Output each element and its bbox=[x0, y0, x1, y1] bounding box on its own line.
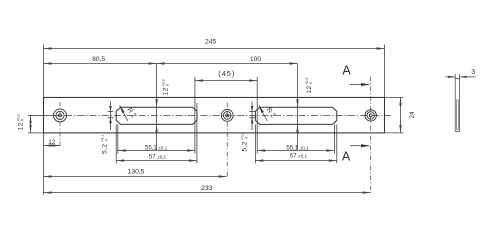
section arrow A top bbox=[350, 83, 371, 86]
side view inner lip bbox=[456, 100, 458, 130]
section arrow A bottom bbox=[350, 144, 371, 147]
svg-text:A: A bbox=[342, 150, 351, 164]
text 12 tol left bbox=[17, 114, 25, 130]
text 5,2 slot S1 bbox=[100, 135, 108, 154]
text 12 tol slot S1 bbox=[162, 79, 170, 95]
svg-text:12: 12 bbox=[163, 87, 170, 95]
section line A-A through hole H3 bbox=[370, 77, 372, 193]
svg-text:80,5: 80,5 bbox=[92, 56, 105, 63]
dimension 12 slot S1 height bbox=[155, 64, 157, 151]
svg-text:3: 3 bbox=[471, 69, 475, 76]
dimension 130,5 bbox=[44, 175, 227, 177]
text 24 bbox=[409, 111, 416, 119]
horizontal centerline bbox=[28, 114, 391, 116]
svg-text:12: 12 bbox=[48, 139, 56, 146]
dimension 12 left (hole height) bbox=[28, 115, 54, 132]
hole H2 center bbox=[226, 114, 229, 117]
hole H2 outer bbox=[221, 110, 233, 122]
dimension 5,2 slot S2 bbox=[249, 102, 255, 131]
svg-text:R 2: R 2 bbox=[265, 107, 277, 120]
dimension 3 side view bbox=[446, 76, 476, 78]
text R2 slot S1 bbox=[126, 107, 138, 120]
dimension 5,2 slot S1 bbox=[108, 102, 114, 131]
text 5,2 slot S2 bbox=[240, 132, 248, 151]
text R2 slot S2 bbox=[265, 107, 277, 120]
svg-text:245: 245 bbox=[205, 38, 216, 45]
svg-text:130,5: 130,5 bbox=[128, 168, 145, 175]
dimension 57 slot S2 bbox=[255, 159, 336, 161]
svg-text:5,2: 5,2 bbox=[241, 141, 248, 151]
slot S2 outline bbox=[255, 107, 336, 124]
hole H1 center bbox=[59, 114, 62, 117]
svg-text:0: 0 bbox=[309, 82, 313, 84]
hole H3 outer bbox=[365, 110, 376, 121]
dimension 80,5 bbox=[44, 62, 157, 64]
hole H3 middle bbox=[367, 112, 374, 119]
side view outline bbox=[455, 74, 459, 132]
dimension 245 bbox=[44, 45, 385, 98]
dimension 12 bottom left (hole x) bbox=[44, 133, 61, 195]
svg-text:12: 12 bbox=[17, 122, 24, 130]
svg-text:5,2: 5,2 bbox=[101, 144, 108, 154]
svg-text:24: 24 bbox=[409, 111, 416, 119]
hole H2 vertical centerline bbox=[226, 103, 228, 177]
dimension 57 slot S1 bbox=[116, 159, 197, 161]
dimension 24 right bbox=[385, 98, 404, 134]
plate outline bbox=[44, 97, 385, 132]
leader R2 slot S1 bbox=[120, 105, 128, 120]
dimension (45) bbox=[195, 77, 257, 154]
svg-text:R 2: R 2 bbox=[126, 107, 138, 120]
svg-text:100: 100 bbox=[250, 56, 261, 63]
slot S1 outline bbox=[116, 107, 197, 124]
svg-text:0: 0 bbox=[104, 139, 108, 141]
leader R2 slot S2 bbox=[259, 105, 267, 120]
hole H2 middle bbox=[223, 112, 231, 120]
svg-text:A: A bbox=[342, 64, 351, 78]
svg-text:0: 0 bbox=[244, 137, 248, 139]
svg-text:12: 12 bbox=[306, 85, 313, 93]
dimension 12 slot S2 height bbox=[296, 64, 298, 151]
hole H1 vertical centerline bbox=[59, 102, 61, 149]
dimension 233 bbox=[44, 191, 371, 193]
dimension 55,1 slot S1 bbox=[116, 103, 197, 163]
svg-text:57 ±0,1: 57 ±0,1 bbox=[290, 153, 308, 159]
svg-text:0: 0 bbox=[20, 119, 24, 121]
hole H1 middle bbox=[56, 111, 64, 119]
svg-text:0: 0 bbox=[166, 84, 170, 86]
hole H3 center bbox=[369, 114, 372, 117]
dimension 100 bbox=[157, 62, 298, 64]
svg-text:233: 233 bbox=[201, 185, 212, 192]
svg-text:(45): (45) bbox=[218, 69, 235, 78]
text 12 tol slot S2 bbox=[305, 78, 313, 94]
dimension 55,1 slot S2 bbox=[255, 124, 336, 163]
svg-text:57 ±0,1: 57 ±0,1 bbox=[149, 155, 167, 161]
hole H1 outer bbox=[54, 109, 67, 122]
